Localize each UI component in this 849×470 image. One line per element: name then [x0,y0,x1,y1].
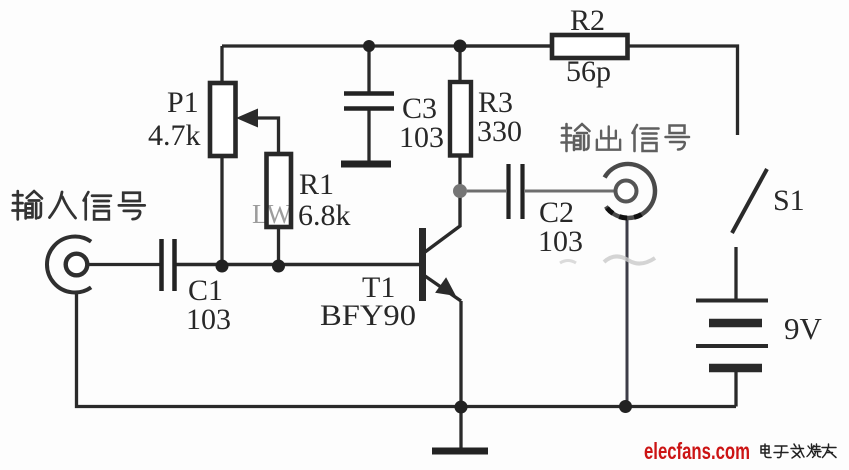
svg-text:9V: 9V [784,311,823,346]
svg-text:P1: P1 [167,86,199,119]
svg-text:R1: R1 [299,168,334,201]
svg-text:LW: LW [252,199,292,229]
svg-text:103: 103 [538,225,583,258]
svg-text:BFY90: BFY90 [320,299,416,332]
svg-text:103: 103 [399,121,444,154]
svg-text:103: 103 [186,303,231,336]
svg-text:R2: R2 [570,4,605,37]
svg-text:4.7k: 4.7k [148,119,201,152]
svg-text:elecfans.com: elecfans.com [644,438,750,464]
svg-text:S1: S1 [773,184,805,217]
svg-text:6.8k: 6.8k [298,199,351,232]
svg-text:330: 330 [477,115,522,148]
svg-text:56p: 56p [566,55,611,88]
